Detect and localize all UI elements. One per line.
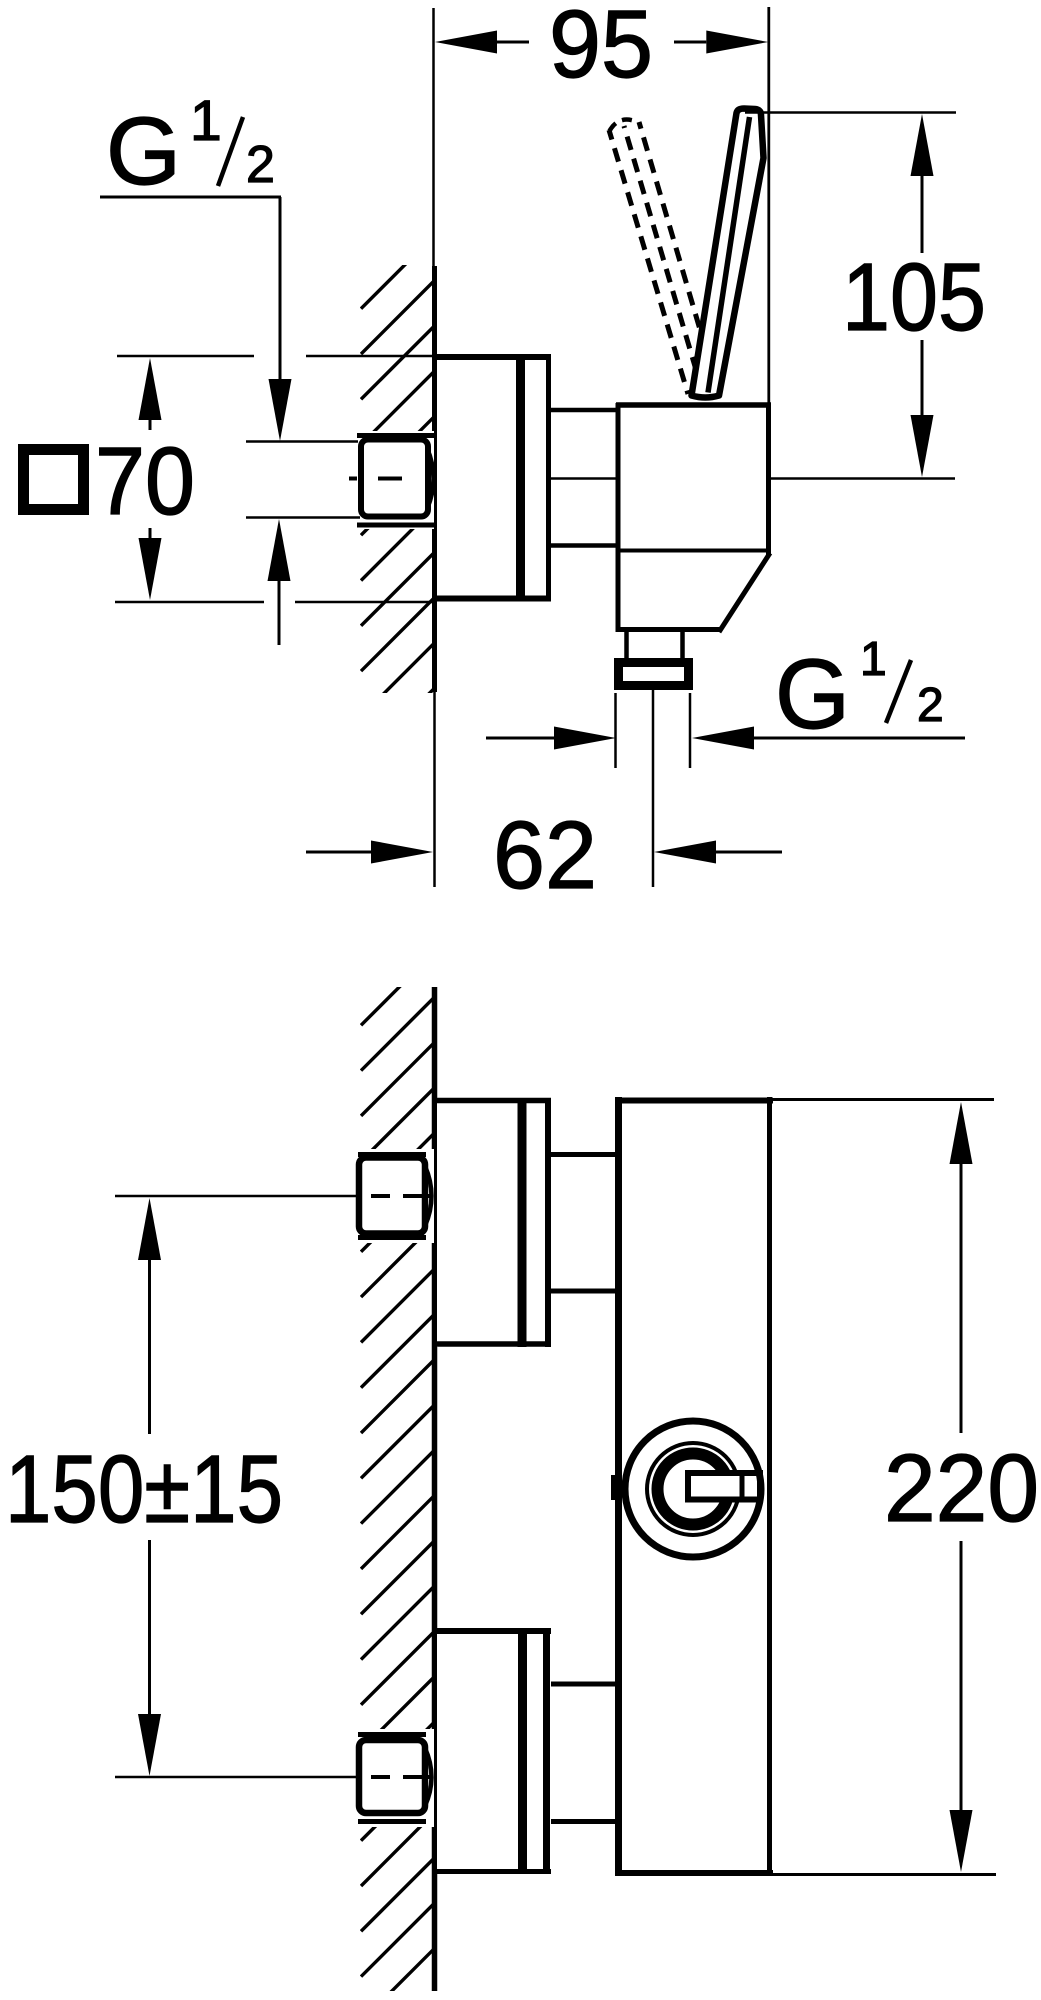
lower nut centerline — [115, 1776, 430, 1779]
dimension 95 — [435, 0, 769, 403]
dimension 62 — [306, 802, 782, 909]
outlet stub — [627, 632, 683, 660]
svg-text:95: 95 — [549, 0, 653, 98]
label G 1/2 (inlet) — [100, 89, 292, 441]
upper union nut — [359, 1158, 432, 1234]
svg-text:70: 70 — [95, 428, 195, 535]
svg-text:150±15: 150±15 — [5, 1436, 283, 1543]
svg-text:G: G — [106, 98, 181, 205]
upper union flange — [358, 1155, 426, 1238]
inlet nut bottom pointer arrow — [268, 519, 291, 581]
inlet nut top extension line — [246, 440, 358, 443]
lower union nut — [359, 1740, 432, 1813]
lower connecting pipe (front) — [551, 1684, 619, 1822]
svg-text:1: 1 — [860, 633, 887, 686]
svg-text:G: G — [775, 638, 850, 749]
inlet centerline — [349, 477, 955, 481]
dimension 70 — [24, 356, 438, 602]
outlet thread extension lines — [616, 693, 691, 768]
svg-text:1: 1 — [190, 89, 222, 153]
wall section line (front view) — [432, 987, 438, 1991]
inlet union nut (side) — [361, 440, 434, 517]
connecting pipe (side view) — [551, 410, 618, 546]
upper escutcheon (front view) — [434, 1098, 551, 1347]
dimension 220 — [773, 1100, 1039, 1875]
upper nut centerline — [115, 1195, 430, 1198]
mixer body (side view) — [616, 403, 771, 632]
svg-text:220: 220 — [884, 1435, 1039, 1542]
wall hatching (front view) — [361, 952, 434, 2000]
svg-text:62: 62 — [493, 802, 597, 909]
lower union flange — [358, 1735, 426, 1822]
svg-text:2: 2 — [917, 679, 944, 732]
lower union white backing — [356, 1729, 434, 1827]
wall hatching (side view) — [361, 236, 434, 807]
handle dial (front) — [625, 1421, 761, 1557]
lower escutcheon (front view) — [434, 1628, 551, 1874]
svg-text:105: 105 — [842, 244, 986, 351]
label G 1/2 (outlet) — [486, 633, 965, 750]
upper union white backing — [356, 1149, 434, 1243]
escutcheon plate (side view) — [434, 354, 551, 601]
inlet union white backing — [356, 431, 434, 529]
svg-text:2: 2 — [246, 136, 275, 194]
lever alternate position (dashed) — [609, 120, 716, 394]
dimension 150±15 — [5, 1198, 283, 1776]
upper connecting pipe (front) — [551, 1155, 619, 1292]
outlet nut — [619, 663, 689, 686]
mixer lever (solid) — [692, 109, 764, 398]
inlet nut bottom extension line — [246, 516, 360, 519]
wall section line (side view) — [434, 8, 435, 887]
handle pivot bump (front) — [611, 1475, 616, 1500]
inlet union flange (side) — [357, 436, 434, 526]
outlet hose centerline — [652, 690, 655, 887]
dimension 105 — [745, 113, 986, 478]
mixer body (front view) — [615, 1097, 773, 1876]
